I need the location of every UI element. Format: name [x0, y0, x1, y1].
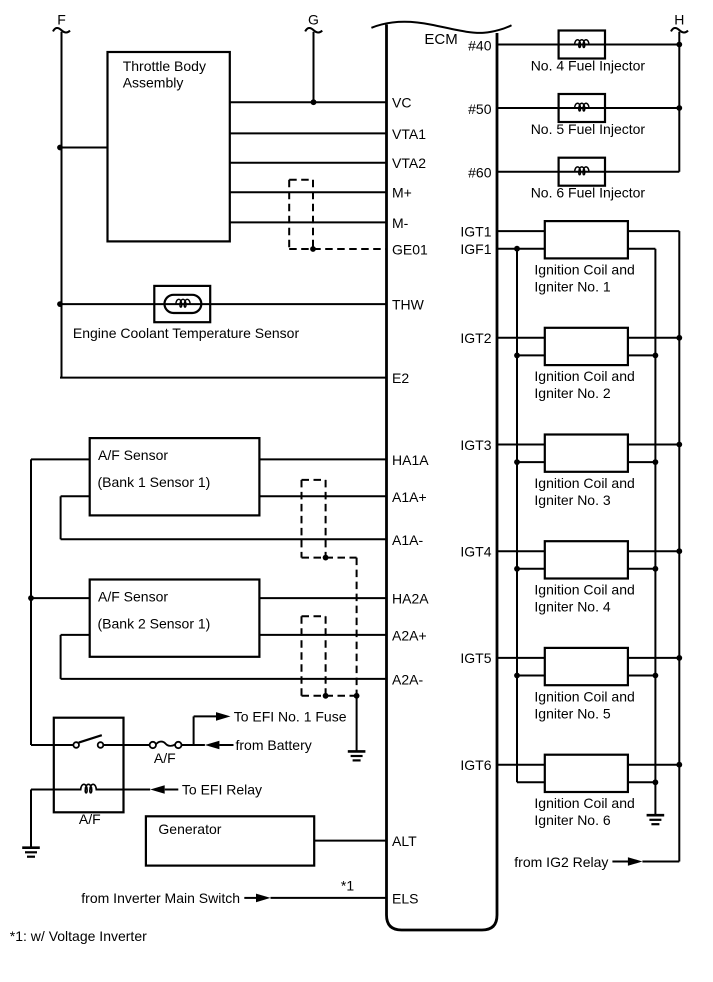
svg-text:E2: E2	[392, 370, 409, 386]
svg-text:No. 5 Fuel Injector: No. 5 Fuel Injector	[531, 121, 646, 137]
svg-text:IGT1: IGT1	[460, 223, 491, 239]
svg-text:(Bank 2 Sensor 1): (Bank 2 Sensor 1)	[98, 615, 211, 631]
svg-text:A/F Sensor: A/F Sensor	[98, 589, 168, 605]
svg-text:Igniter No. 3: Igniter No. 3	[534, 492, 610, 508]
svg-text:A/F: A/F	[154, 750, 176, 766]
svg-text:IGT3: IGT3	[460, 437, 491, 453]
svg-text:ELS: ELS	[392, 890, 418, 906]
svg-text:(Bank 1 Sensor 1): (Bank 1 Sensor 1)	[98, 474, 211, 490]
svg-text:IGT6: IGT6	[460, 757, 491, 773]
svg-text:G: G	[308, 11, 319, 27]
svg-text:IGT5: IGT5	[460, 650, 491, 666]
svg-text:A/F: A/F	[79, 811, 101, 827]
svg-text:Igniter No. 6: Igniter No. 6	[534, 812, 610, 828]
svg-text:A2A-: A2A-	[392, 671, 423, 687]
svg-text:*1: *1	[341, 877, 354, 893]
svg-text:Igniter No. 2: Igniter No. 2	[534, 385, 610, 401]
svg-text:H: H	[674, 11, 684, 27]
svg-text:Ignition Coil and: Ignition Coil and	[534, 582, 634, 598]
svg-text:HA1A: HA1A	[392, 452, 429, 468]
svg-text:from Inverter Main Switch: from Inverter Main Switch	[81, 890, 240, 906]
svg-text:GE01: GE01	[392, 242, 428, 258]
svg-text:from Battery: from Battery	[236, 737, 312, 753]
svg-text:F: F	[57, 11, 66, 27]
svg-text:Throttle Body: Throttle Body	[123, 58, 206, 74]
svg-text:HA2A: HA2A	[392, 591, 429, 607]
svg-text:M+: M+	[392, 185, 412, 201]
svg-text:VTA2: VTA2	[392, 155, 426, 171]
svg-text:#60: #60	[468, 165, 492, 181]
svg-text:IGT4: IGT4	[460, 544, 491, 560]
svg-text:Ignition Coil and: Ignition Coil and	[534, 368, 634, 384]
svg-text:No. 6 Fuel Injector: No. 6 Fuel Injector	[531, 185, 646, 201]
svg-text:To EFI Relay: To EFI Relay	[182, 782, 262, 798]
svg-text:A2A+: A2A+	[392, 627, 427, 643]
svg-text:*1: w/ Voltage Inverter: *1: w/ Voltage Inverter	[10, 928, 147, 944]
svg-text:Ignition Coil and: Ignition Coil and	[534, 688, 634, 704]
svg-text:from IG2 Relay: from IG2 Relay	[514, 854, 608, 870]
svg-text:A/F Sensor: A/F Sensor	[98, 447, 168, 463]
svg-text:Igniter No. 4: Igniter No. 4	[534, 599, 610, 615]
svg-text:#50: #50	[468, 101, 492, 117]
svg-text:M-: M-	[392, 215, 409, 231]
svg-text:IGF1: IGF1	[460, 241, 491, 257]
svg-text:Igniter No. 1: Igniter No. 1	[534, 279, 610, 295]
svg-text:A1A+: A1A+	[392, 489, 427, 505]
svg-text:ALT: ALT	[392, 833, 417, 849]
svg-text:Assembly: Assembly	[123, 75, 184, 91]
svg-text:Ignition Coil and: Ignition Coil and	[534, 475, 634, 491]
svg-text:Igniter No. 5: Igniter No. 5	[534, 705, 610, 721]
svg-text:To EFI No. 1 Fuse: To EFI No. 1 Fuse	[234, 708, 347, 724]
svg-text:ECM: ECM	[424, 31, 457, 48]
svg-text:Engine Coolant Temperature Sen: Engine Coolant Temperature Sensor	[73, 325, 300, 341]
svg-text:VC: VC	[392, 95, 411, 111]
svg-text:No. 4 Fuel Injector: No. 4 Fuel Injector	[531, 58, 646, 74]
svg-text:Generator: Generator	[158, 821, 221, 837]
svg-text:Ignition Coil and: Ignition Coil and	[534, 262, 634, 278]
svg-text:A1A-: A1A-	[392, 532, 423, 548]
svg-text:VTA1: VTA1	[392, 126, 426, 142]
svg-text:Ignition Coil and: Ignition Coil and	[534, 795, 634, 811]
svg-text:IGT2: IGT2	[460, 330, 491, 346]
svg-text:#40: #40	[468, 37, 492, 53]
svg-text:THW: THW	[392, 297, 425, 313]
